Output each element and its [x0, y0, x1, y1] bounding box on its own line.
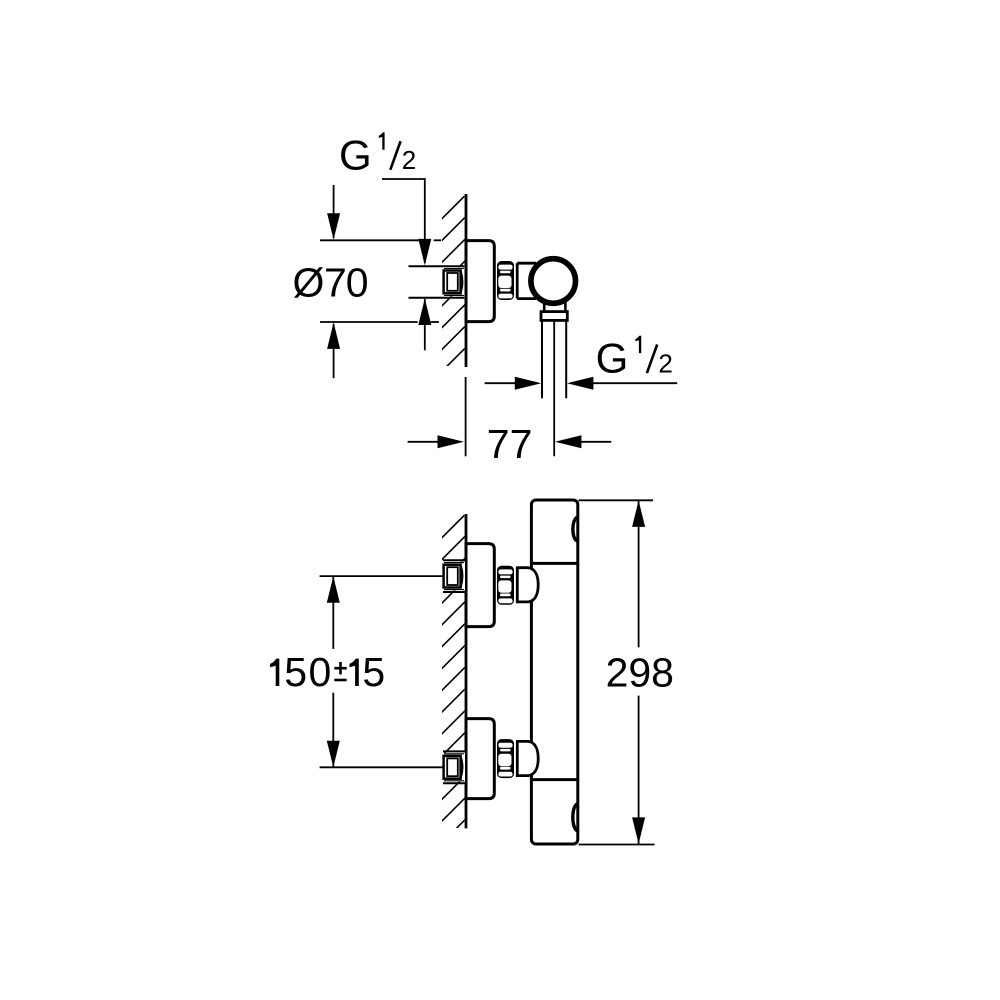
svg-text:5: 5	[284, 649, 307, 695]
svg-text:7: 7	[324, 260, 347, 306]
svg-text:G: G	[339, 131, 372, 178]
svg-text:Ø: Ø	[293, 260, 325, 306]
svg-text:298: 298	[606, 650, 674, 696]
svg-text:2: 2	[658, 348, 672, 378]
svg-text:5: 5	[362, 649, 385, 695]
svg-text:0: 0	[346, 260, 369, 306]
svg-text:77: 77	[487, 421, 533, 467]
svg-text:0: 0	[308, 649, 331, 695]
svg-text:2: 2	[402, 145, 416, 175]
svg-text:G: G	[596, 335, 629, 382]
